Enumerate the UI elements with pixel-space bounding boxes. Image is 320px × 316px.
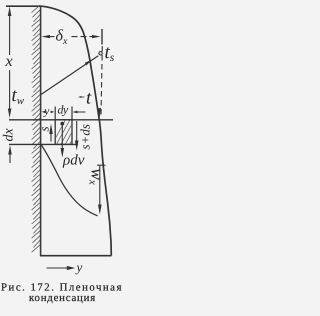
svg-text:ρdv: ρdv: [62, 153, 85, 169]
control volume box: [55, 120, 72, 145]
svg-text:dx: dx: [2, 128, 17, 142]
box hatching: [52, 120, 101, 145]
delta_x dimension dashes right: [72, 36, 94, 38]
dashed extension line: [101, 46, 102, 116]
tick at y+dy: [71, 107, 73, 120]
delta_x dimension tick bar: [101, 29, 103, 45]
velocity profile curve: [41, 145, 98, 216]
label t leader arrow: [80, 96, 85, 98]
temperature profile line: [41, 56, 98, 95]
bottom edge line: [40, 255, 112, 257]
shear arrow down: [76, 121, 78, 141]
shear arrow up: [50, 133, 52, 142]
weight dot: [60, 122, 64, 126]
y dimension right arrowhead: [51, 111, 55, 114]
W_x top tick: [97, 164, 106, 166]
wall hatching: [32, 5, 41, 252]
dy external arrow: [74, 111, 86, 113]
dx slab top line: [9, 119, 113, 121]
W_x arrow: [99, 166, 101, 206]
svg-text:t: t: [86, 88, 92, 109]
temperature line arrowhead: [85, 60, 92, 66]
y axis arrow: [47, 267, 69, 269]
x dimension line: [9, 14, 11, 110]
svg-text:y: y: [75, 260, 83, 275]
svg-text:s+ds: s+ds: [78, 124, 93, 149]
svg-text:s: s: [37, 126, 52, 131]
small flow arrowhead on curve: [97, 108, 101, 119]
svg-text:конденсация: конденсация: [29, 292, 96, 304]
weight arrow: [61, 124, 63, 149]
top edge line: [6, 5, 42, 7]
x dimension top arrowhead: [8, 7, 12, 17]
y dimension left arrowhead: [41, 111, 45, 114]
wall surface line: [40, 6, 42, 256]
svg-text:y: y: [43, 106, 50, 118]
film surface curve: [42, 6, 111, 255]
delta_x dimension left arrowhead: [41, 35, 50, 38]
tick at y: [54, 107, 56, 120]
dx lower arrow: [9, 153, 11, 163]
delta_x dimension right arrowhead: [92, 35, 101, 38]
node t_s circle: [99, 52, 102, 55]
x dimension bottom arrowhead: [8, 109, 12, 119]
svg-text:x: x: [5, 53, 13, 70]
svg-text:dy: dy: [58, 103, 69, 117]
delta_x dimension dash left: [48, 36, 55, 38]
dx slab bottom line: [9, 143, 78, 145]
